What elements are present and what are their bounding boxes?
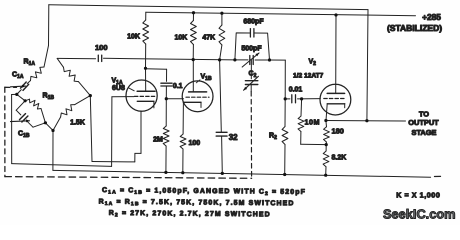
svg-text:SeekIC.com: SeekIC.com xyxy=(383,207,456,222)
svg-text:8.2K: 8.2K xyxy=(332,155,347,162)
svg-text:10K: 10K xyxy=(174,35,187,42)
svg-text:32: 32 xyxy=(229,133,238,142)
svg-text:1.5K: 1.5K xyxy=(70,120,85,127)
svg-text:0.1: 0.1 xyxy=(173,83,183,90)
svg-text:500pF: 500pF xyxy=(241,46,262,53)
svg-text:100: 100 xyxy=(189,140,201,147)
svg-text:STAGE: STAGE xyxy=(412,128,437,137)
svg-text:6U8: 6U8 xyxy=(112,85,125,92)
svg-text:1/2 12AT7: 1/2 12AT7 xyxy=(293,73,324,80)
svg-text:+285: +285 xyxy=(422,12,441,22)
svg-text:100: 100 xyxy=(95,43,108,52)
svg-text:180: 180 xyxy=(332,127,344,136)
svg-text:TO: TO xyxy=(419,110,429,119)
svg-text:K = X 1,000: K = X 1,000 xyxy=(396,191,440,200)
svg-text:47K: 47K xyxy=(202,35,215,42)
svg-text:(STABILIZED): (STABILIZED) xyxy=(387,23,442,33)
svg-text:OUTPUT: OUTPUT xyxy=(408,118,439,127)
svg-text:10M: 10M xyxy=(305,118,320,127)
svg-text:2M: 2M xyxy=(153,137,163,144)
svg-text:680pF: 680pF xyxy=(243,19,264,26)
svg-text:10K: 10K xyxy=(127,34,140,41)
svg-text:0.01: 0.01 xyxy=(289,87,303,94)
